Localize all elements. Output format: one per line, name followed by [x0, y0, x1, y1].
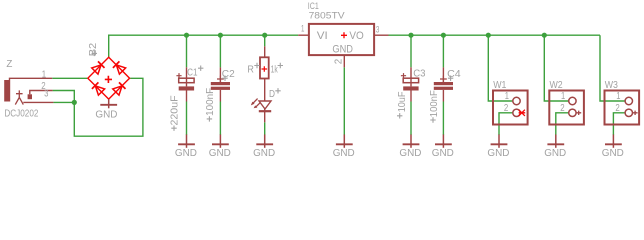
wire C1 top: [186, 35, 188, 67]
wire W2 pin2 to ground: [556, 113, 569, 135]
wire jack pin2 net: [53, 78, 143, 136]
svg-text:R: R: [247, 64, 254, 75]
svg-text:2: 2: [615, 103, 619, 114]
wire R1 top: [264, 35, 266, 46]
origin cross 1k: [278, 63, 283, 68]
ground C3: [399, 135, 421, 159]
wire W3 pin1: [600, 35, 625, 101]
svg-text:2: 2: [504, 103, 508, 114]
svg-text:GND: GND: [432, 148, 454, 159]
origin cross 220uF: [171, 126, 176, 131]
ground W3: [602, 135, 624, 159]
node bus junction W1: [486, 33, 491, 38]
capacitor C3: [401, 67, 419, 101]
terminal W2: [549, 91, 584, 125]
ground IC1: [333, 135, 355, 159]
wire W1 pin1: [488, 35, 512, 101]
wire W2 pin1: [544, 35, 568, 101]
svg-text:7805TV: 7805TV: [309, 11, 346, 21]
svg-text:GND: GND: [602, 148, 624, 159]
svg-text:DCJ0202: DCJ0202: [4, 109, 38, 120]
svg-text:W3: W3: [605, 80, 618, 91]
ground W1: [487, 135, 509, 159]
svg-text:3: 3: [376, 24, 380, 35]
origin cross C2: [222, 76, 227, 81]
terminal W3: [605, 91, 640, 125]
svg-text:220uF: 220uF: [169, 95, 180, 125]
svg-text:C3: C3: [413, 68, 425, 79]
svg-text:GND: GND: [175, 148, 197, 159]
svg-text:GND: GND: [487, 148, 509, 159]
svg-text:D: D: [269, 89, 275, 100]
origin cross C1: [198, 66, 203, 71]
svg-text:GND: GND: [209, 148, 231, 159]
wire jack pin3 to junction: [53, 101, 74, 103]
node bus junction C4: [441, 33, 446, 38]
voltage regulator IC1: [298, 24, 388, 67]
svg-text:VO: VO: [349, 30, 364, 42]
svg-text:100nF: 100nF: [429, 90, 440, 117]
svg-text:10uF: 10uF: [397, 92, 408, 113]
svg-text:3: 3: [44, 88, 48, 99]
svg-text:Z: Z: [6, 59, 13, 70]
wire C4 top: [442, 35, 444, 67]
wire IC1 gnd pin to ground: [343, 67, 345, 135]
wire LED bottom to ground: [264, 122, 266, 135]
capacitor C4: [434, 67, 453, 101]
node bus junction W2: [542, 33, 547, 38]
wire top bus right segment: [389, 34, 601, 36]
ground W2: [544, 135, 566, 159]
svg-text:GND: GND: [333, 148, 355, 159]
svg-text:W1: W1: [493, 80, 506, 91]
resistor R1: [260, 46, 269, 101]
origin cross 100nF C4: [430, 117, 435, 122]
svg-text:W2: W2: [550, 80, 563, 91]
connector Z DCJ0202: [4, 78, 53, 104]
svg-text:1k: 1k: [271, 64, 279, 75]
svg-text:1: 1: [42, 70, 47, 81]
svg-text:GND: GND: [253, 148, 275, 159]
capacitor C2: [211, 67, 230, 101]
wire C4 bottom to ground: [442, 102, 444, 136]
node bus junction C2: [218, 33, 223, 38]
wire jack pin1 to bridge: [52, 77, 87, 79]
LED D: [251, 99, 271, 123]
origin cross B2: [92, 51, 97, 56]
wire C2 bottom to ground: [219, 102, 221, 136]
ground LED: [253, 135, 275, 159]
terminal W1: [493, 91, 528, 125]
svg-text:GND: GND: [399, 148, 421, 159]
origin cross 100nF C2: [207, 116, 212, 121]
wire C3 top: [410, 35, 412, 67]
origin cross C4: [448, 76, 453, 81]
svg-text:1: 1: [616, 91, 620, 102]
svg-text:1: 1: [561, 91, 565, 102]
origin cross R1: [254, 63, 259, 68]
svg-text:2: 2: [560, 103, 564, 114]
node bus junction C3: [408, 33, 413, 38]
bridge rectifier B2: [88, 57, 130, 99]
wire W3 pin2 to ground: [613, 113, 624, 135]
wire C2 top: [219, 35, 221, 67]
node bus junction C1: [184, 33, 189, 38]
capacitor C1: [176, 67, 194, 101]
svg-text:100nF: 100nF: [205, 88, 216, 116]
origin cross D: [275, 88, 280, 93]
svg-text:VI: VI: [317, 30, 328, 42]
plus mark IC1: [341, 32, 347, 38]
svg-text:IC1: IC1: [308, 1, 319, 11]
wire C1 bottom to ground: [186, 102, 188, 136]
svg-text:C1: C1: [187, 68, 198, 79]
origin cross 10uF: [397, 113, 402, 118]
svg-text:GND: GND: [544, 148, 566, 159]
wire W1 pin2 to ground: [499, 113, 513, 135]
ground bridge: [95, 99, 117, 120]
ground C4: [432, 135, 454, 159]
svg-text:GND: GND: [95, 109, 117, 120]
svg-text:1: 1: [505, 91, 509, 102]
svg-text:B2: B2: [88, 43, 99, 57]
svg-text:1: 1: [301, 23, 304, 34]
node jack pin2/3 junction: [72, 100, 77, 105]
wire C3 bottom to ground: [410, 102, 412, 136]
wire top bus left segment: [109, 35, 299, 57]
svg-text:2: 2: [333, 59, 344, 65]
ground C2: [209, 135, 231, 159]
node bus junction R1: [262, 33, 267, 38]
ground C1: [175, 135, 197, 159]
svg-text:GND: GND: [332, 44, 353, 56]
